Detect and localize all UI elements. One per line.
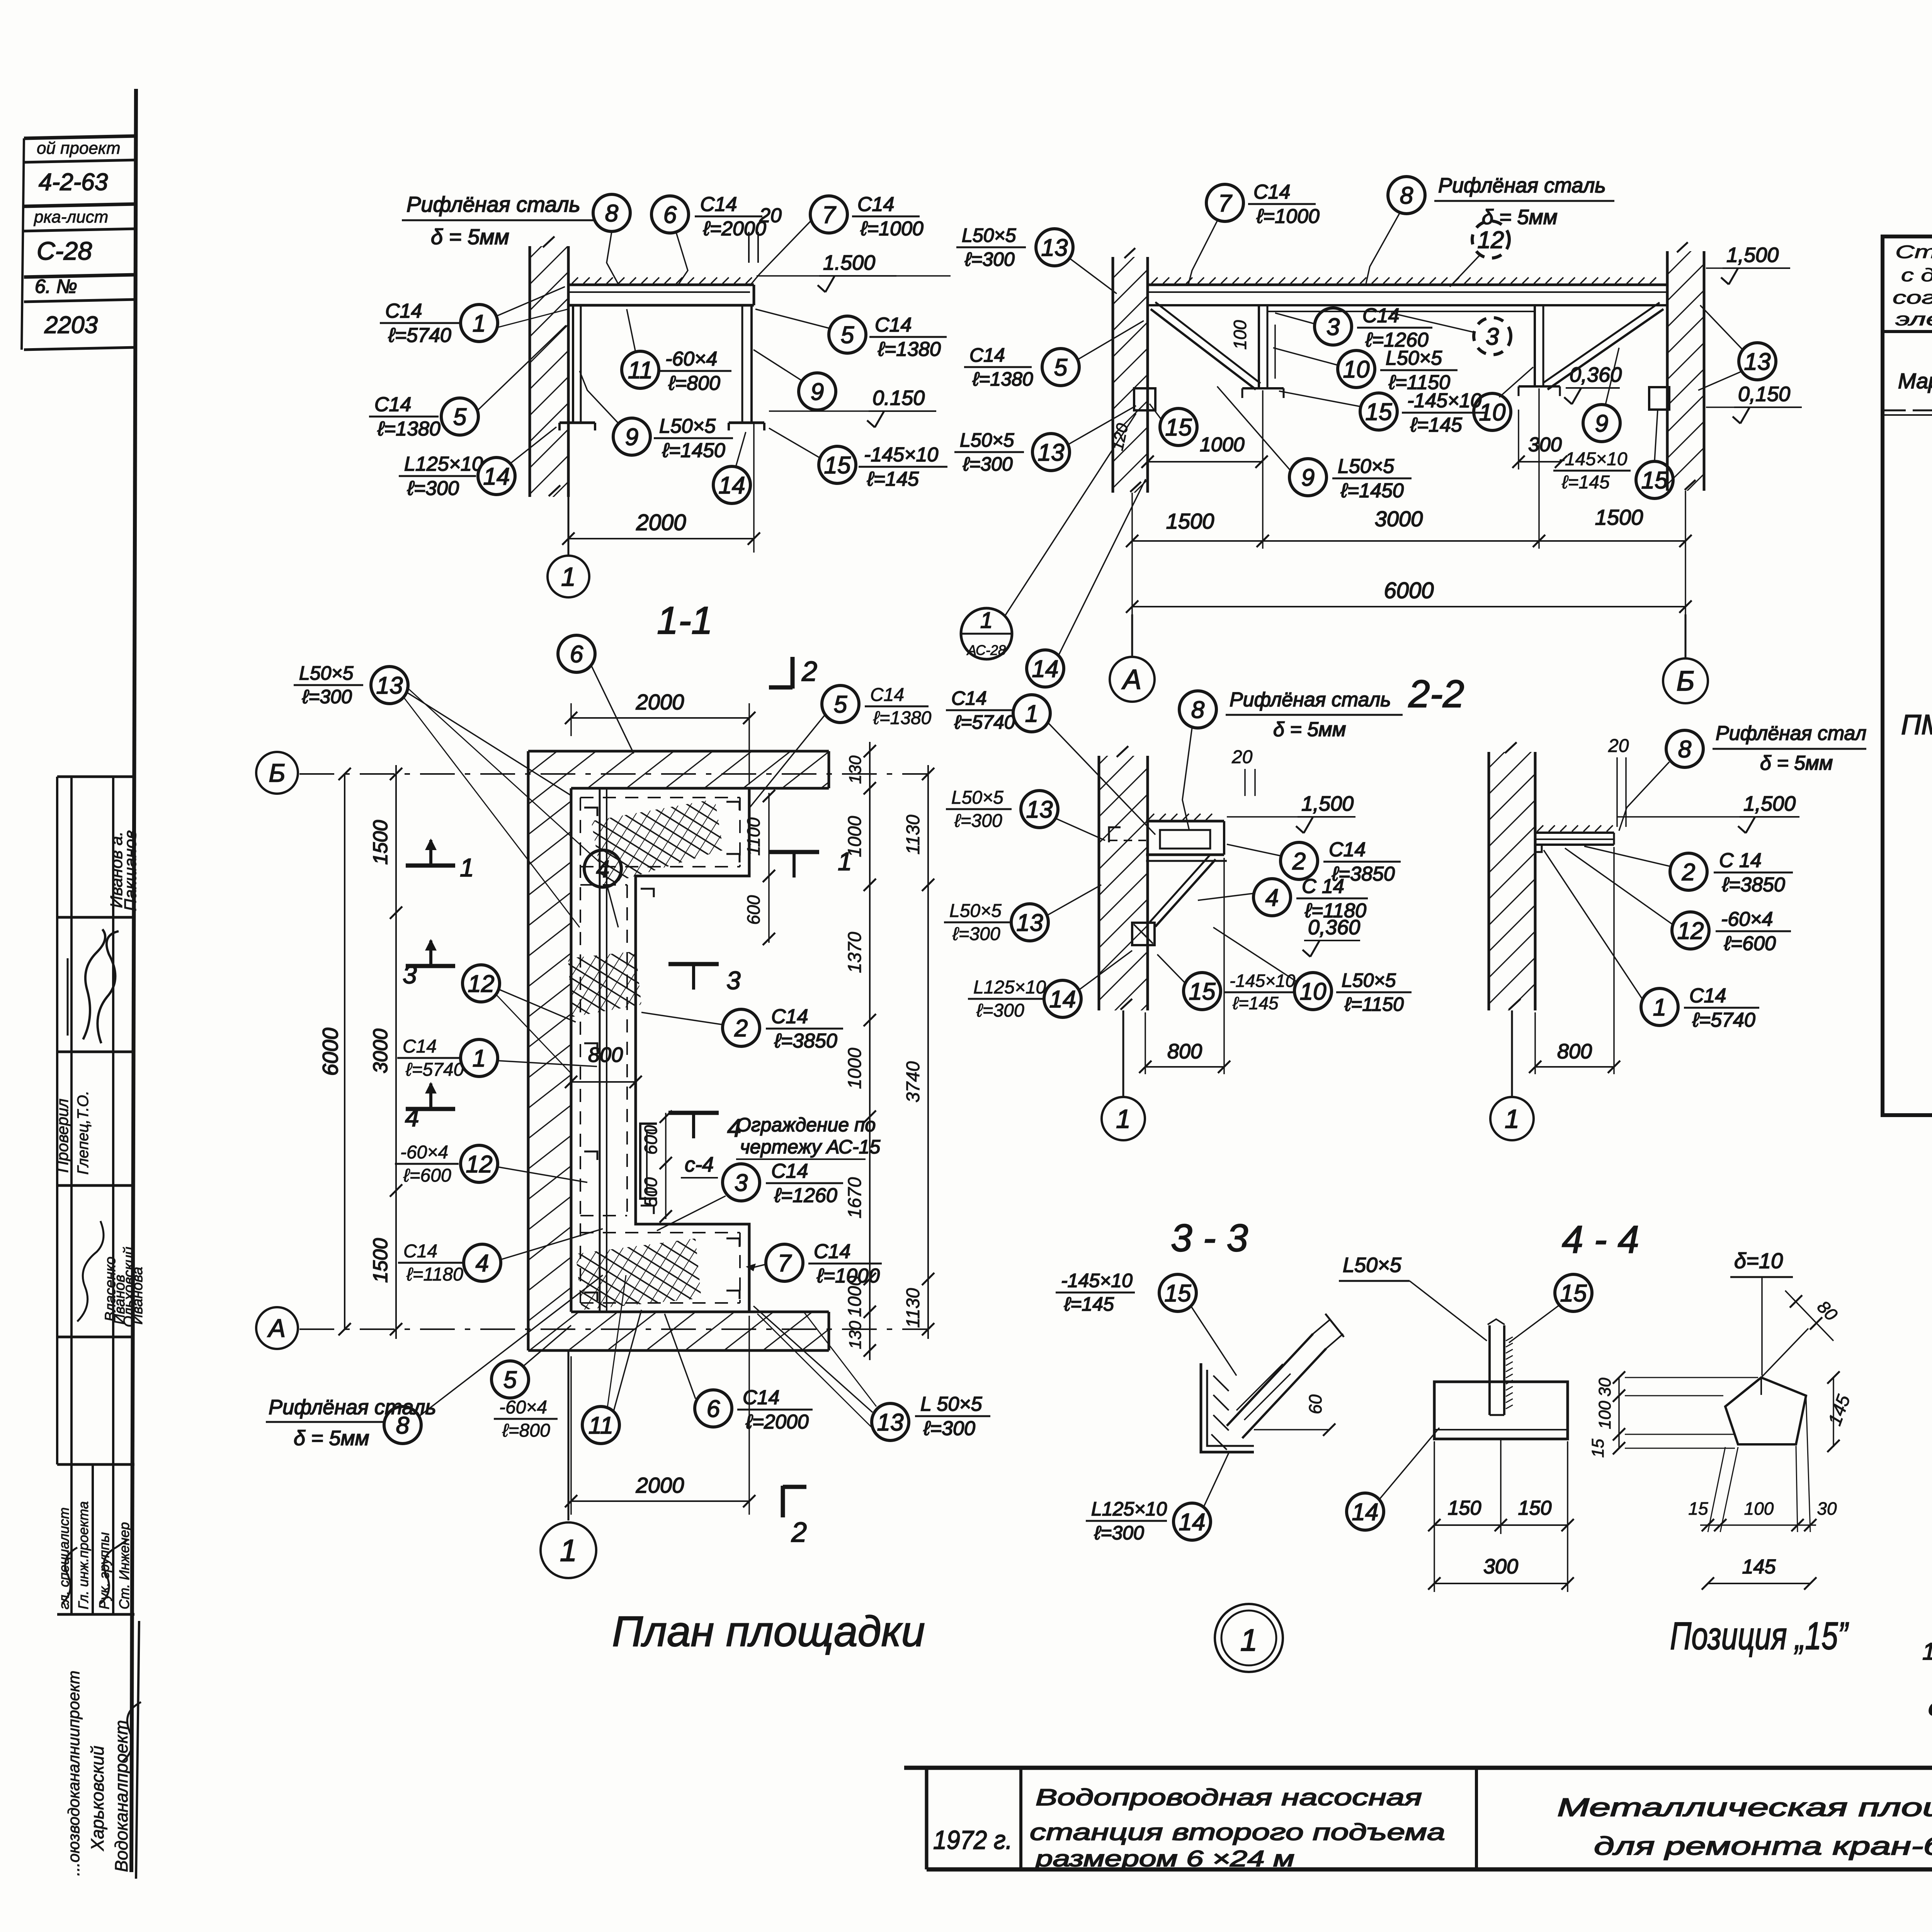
pos15 left detail angle with gusset: [1201, 1363, 1254, 1452]
svg-text:С14: С14: [385, 300, 422, 322]
svg-text:С14: С14: [374, 393, 411, 416]
svg-text:С14: С14: [403, 1241, 437, 1262]
callout 8 top of 2-2: [1388, 177, 1425, 214]
section 4-4 callout 8: [1666, 730, 1703, 767]
callout 12 dashed top of 2-2: [1472, 221, 1509, 258]
signature table grid: [56, 777, 58, 1464]
svg-text:2-2: 2-2: [1408, 672, 1464, 716]
svg-text:150: 150: [1518, 1497, 1552, 1519]
svg-text:...оюзводоканалниипроект: ...оюзводоканалниипроект: [65, 1670, 83, 1876]
svg-text:15: 15: [1165, 1280, 1191, 1307]
svg-text:4: 4: [405, 1103, 419, 1132]
svg-text:8: 8: [1400, 182, 1413, 209]
svg-text:5: 5: [834, 691, 847, 718]
section 3-3 callout 15: [1184, 973, 1221, 1010]
svg-text:2203: 2203: [44, 312, 98, 338]
svg-text:1.500: 1.500: [823, 251, 875, 274]
svg-text:L125×10: L125×10: [973, 977, 1046, 998]
callout 14 bottom: [713, 466, 750, 503]
svg-text:Рифлёная сталь: Рифлёная сталь: [1438, 174, 1606, 197]
pos15 left detail dim 60: [1254, 1429, 1329, 1430]
svg-text:13: 13: [1038, 439, 1065, 466]
svg-text:ℓ=300: ℓ=300: [923, 1417, 975, 1440]
plan bottom callout 13 with L50x5: [872, 1403, 909, 1440]
svg-text:-145×10: -145×10: [1407, 389, 1481, 412]
callout 15 far right of 2-2: [1553, 470, 1631, 472]
spec table outer border: [1883, 236, 1932, 1115]
svg-text:1670: 1670: [845, 1177, 865, 1218]
svg-text:L50×5: L50×5: [659, 415, 716, 437]
svg-text:13: 13: [376, 672, 403, 699]
svg-text:130: 130: [846, 1321, 865, 1349]
svg-text:600: 600: [641, 1125, 661, 1155]
svg-text:9: 9: [625, 424, 638, 451]
svg-text:5: 5: [453, 404, 467, 430]
svg-text:С14: С14: [1253, 181, 1290, 203]
svg-text:7: 7: [822, 202, 837, 228]
svg-text:ПМ-2: ПМ-2: [1901, 709, 1932, 740]
svg-text:20: 20: [759, 204, 782, 227]
signatures scripts: [83, 929, 105, 1039]
svg-text:с листом АС-3.: с листом АС-3.: [1928, 1694, 1932, 1721]
svg-text:ℓ=1000: ℓ=1000: [1256, 205, 1320, 228]
callout 9 left with L50x5 1450: [1289, 459, 1327, 496]
plan left dim 6000: [344, 774, 345, 1329]
svg-text:ℓ=300: ℓ=300: [976, 1000, 1024, 1021]
svg-text:ℓ=1380: ℓ=1380: [972, 368, 1033, 390]
svg-text:100: 100: [1595, 1401, 1614, 1429]
svg-text:С14: С14: [814, 1240, 850, 1263]
svg-text:4: 4: [476, 1250, 489, 1277]
plan beam along wall pos 1: [599, 788, 601, 1312]
svg-text:300: 300: [1483, 1555, 1518, 1578]
plan callout 12 upper: [463, 965, 500, 1002]
svg-text:8: 8: [1191, 697, 1205, 723]
pos15 middle detail base plate: [1434, 1382, 1568, 1439]
plan callout 2 with C14 3850: [723, 1009, 760, 1046]
svg-text:2: 2: [734, 1015, 748, 1042]
svg-text:1: 1: [460, 853, 474, 882]
plan inner dims 1100 600: [768, 793, 770, 943]
svg-text:станция второго подъема: станция второго подъема: [1030, 1819, 1445, 1845]
svg-text:Глепец,Т.О.: Глепец,Т.О.: [75, 1091, 92, 1175]
plan section flags right: [769, 850, 819, 854]
svg-text:5: 5: [1054, 354, 1068, 381]
section 3-3 deck channel: [1146, 820, 1224, 823]
svg-text:800: 800: [1557, 1040, 1592, 1063]
section 4-4 callout 1: [1641, 988, 1678, 1026]
svg-text:L50×5: L50×5: [949, 901, 1002, 921]
svg-text:145: 145: [1742, 1556, 1776, 1578]
section 4-4 deck thin: [1535, 832, 1614, 834]
svg-text:7: 7: [1218, 190, 1233, 217]
svg-text:L50×5: L50×5: [962, 224, 1016, 246]
svg-text:6000: 6000: [1384, 578, 1434, 603]
pos15 left callout 14 with L125x10: [1086, 1520, 1167, 1522]
section 3-3 diagonal brace: [1155, 859, 1216, 927]
reference circle 1 / AC-28: [961, 608, 1012, 659]
svg-text:1: 1: [561, 562, 576, 592]
svg-text:8: 8: [605, 200, 619, 227]
plan callout 3 with C14 1260: [723, 1164, 760, 1201]
svg-text:10: 10: [1479, 399, 1506, 426]
signature scripts bottom band: [62, 1548, 77, 1604]
svg-text:6: 6: [570, 641, 583, 668]
callout 1 with label C14 5740: [380, 322, 459, 324]
svg-text:3: 3: [726, 966, 741, 995]
svg-text:130: 130: [846, 755, 865, 784]
svg-text:С14: С14: [1362, 304, 1399, 327]
svg-text:6: 6: [663, 202, 677, 228]
svg-text:13: 13: [1744, 349, 1771, 375]
svg-text:3 - 3: 3 - 3: [1171, 1216, 1248, 1260]
svg-text:размером 6 ×24 м: размером 6 ×24 м: [1034, 1846, 1294, 1871]
svg-text:15: 15: [1641, 467, 1668, 494]
svg-text:С14: С14: [969, 344, 1005, 366]
svg-text:ℓ=3850: ℓ=3850: [774, 1030, 837, 1052]
svg-text:15: 15: [1688, 1498, 1708, 1519]
svg-text:1000: 1000: [845, 816, 865, 857]
svg-text:1: 1: [980, 608, 993, 633]
callout 10 with L50x5 1150: [1338, 350, 1375, 388]
section 3-3 dim 800: [1145, 1012, 1146, 1074]
plan callout 12 lower with -60x4: [395, 1163, 459, 1165]
svg-text:Гл. инж.проекта: Гл. инж.проекта: [75, 1501, 91, 1609]
section 2-2 labels left side: [956, 247, 1026, 248]
svg-text:Иванова: Иванова: [129, 1267, 146, 1325]
svg-text:0,360: 0,360: [1308, 916, 1360, 939]
section 2-2 right diagonal brace: [1548, 309, 1663, 389]
svg-text:1130: 1130: [903, 815, 923, 855]
svg-text:С14: С14: [700, 193, 737, 216]
svg-text:12: 12: [466, 1151, 493, 1178]
svg-text:12: 12: [1478, 227, 1504, 253]
svg-text:2: 2: [791, 1517, 807, 1548]
svg-text:1972 г.: 1972 г.: [933, 1825, 1012, 1855]
section 3-3 callout 10: [1294, 973, 1332, 1010]
svg-text:13: 13: [1026, 796, 1053, 823]
svg-text:13: 13: [1041, 235, 1068, 261]
section 2-2 left post: [1258, 305, 1260, 388]
svg-text:Сталь ВК Ст.3КП для сварных ко: Сталь ВК Ст.3КП для сварных конструкций …: [1895, 241, 1932, 262]
svg-text:ℓ=300: ℓ=300: [964, 248, 1015, 270]
svg-text:ℓ=1260: ℓ=1260: [774, 1184, 837, 1207]
pos15 right dim 145 vertical: [1833, 1378, 1834, 1447]
section 4-4 callout 2: [1670, 853, 1707, 890]
svg-text:Б: Б: [1677, 666, 1695, 697]
section 2-2 deck: [1148, 284, 1667, 286]
section 4-4 axis circle 1: [1511, 1010, 1513, 1097]
svg-text:ℓ=5740: ℓ=5740: [954, 711, 1015, 733]
svg-text:9: 9: [1595, 410, 1608, 437]
svg-text:ℓ=145: ℓ=145: [1064, 1293, 1114, 1315]
pos15 right dims left chain 30 100 15: [1618, 1378, 1620, 1449]
plan callout 4 on deck: [584, 850, 621, 887]
svg-text:2: 2: [1292, 848, 1306, 875]
plan callout 6 top: [558, 635, 595, 672]
svg-text:С14: С14: [743, 1386, 779, 1409]
svg-text:ℓ=1000: ℓ=1000: [816, 1265, 880, 1287]
svg-text:L50×5: L50×5: [951, 787, 1003, 808]
svg-text:3: 3: [1327, 314, 1340, 340]
svg-text:2000: 2000: [636, 510, 686, 535]
svg-text:С14: С14: [403, 1036, 437, 1057]
callout 15 left bracket: [1160, 408, 1197, 446]
svg-text:План площадки: План площадки: [612, 1608, 925, 1655]
svg-text:ℓ=1180: ℓ=1180: [406, 1264, 463, 1285]
svg-text:δ = 5мм: δ = 5мм: [1273, 718, 1346, 741]
svg-text:L50×5: L50×5: [1342, 969, 1396, 991]
svg-text:14: 14: [719, 472, 745, 499]
svg-text:L50×5: L50×5: [299, 662, 354, 684]
svg-text:1500: 1500: [1595, 505, 1643, 529]
plan left dims 1500 3000 1500: [395, 765, 397, 1339]
svg-text:согласно п.2,5,2g и предельног: согласно п.2,5,2g и предельного содержан…: [1893, 287, 1932, 308]
svg-text:14: 14: [1032, 656, 1059, 682]
plan section flags left: [406, 864, 455, 868]
svg-text:L50×5: L50×5: [1343, 1253, 1402, 1277]
svg-text:с дополнительными гарантиями: с дополнительными гарантиями загиба в хо…: [1901, 265, 1932, 285]
section 4-4 dim 800: [1534, 1012, 1536, 1074]
section 3-3 label C14 5740 callout 1: [946, 709, 1014, 711]
plan bottom callout 11 with -60x4 800: [494, 1418, 558, 1420]
svg-text:ℓ=300: ℓ=300: [1094, 1522, 1144, 1544]
title block dividers: [1019, 1768, 1022, 1869]
callout 15 with -145x10 145: [1360, 393, 1397, 430]
svg-text:100: 100: [1744, 1498, 1774, 1519]
callout 11 with label -60x4: [622, 351, 659, 388]
svg-text:Проверил: Проверил: [53, 1099, 71, 1173]
svg-text:1: 1: [473, 310, 486, 337]
svg-text:рка-лист: рка-лист: [33, 207, 108, 226]
svg-text:1-1: 1-1: [657, 599, 713, 642]
svg-text:2: 2: [1682, 859, 1695, 886]
svg-text:С14: С14: [1329, 838, 1366, 861]
svg-text:ой проект: ой проект: [37, 139, 121, 158]
svg-text:ℓ=145: ℓ=145: [1561, 472, 1610, 493]
svg-text:ℓ=1380: ℓ=1380: [873, 708, 932, 728]
svg-text:δ = 5мм: δ = 5мм: [294, 1427, 369, 1450]
section 1-1 right channel post: [742, 305, 743, 423]
svg-text:ℓ=300: ℓ=300: [954, 811, 1002, 831]
plan bottom callout 6 with C14 2000: [695, 1390, 732, 1427]
svg-text:-60×4: -60×4: [665, 348, 717, 370]
svg-text:С14: С14: [771, 1160, 808, 1182]
svg-text:3000: 3000: [369, 1029, 392, 1073]
section 2-2 under-deck flange line: [1267, 311, 1535, 312]
section 2-2 left wall: [1113, 257, 1148, 493]
svg-text:14: 14: [1179, 1509, 1206, 1536]
svg-text:С-28: С-28: [37, 236, 92, 265]
svg-text:0.150: 0.150: [872, 386, 925, 410]
svg-text:1. Настоящий чертёж рассмат: 1. Настоящий чертёж рассматривать: [1922, 1638, 1932, 1665]
pos15 right dim 80 diagonal: [1785, 1291, 1833, 1341]
plan left wall band with hatch: [528, 751, 571, 1350]
pos15 left callout 15 with -145x10: [1056, 1292, 1135, 1294]
svg-text:12: 12: [1677, 918, 1704, 944]
svg-text:4: 4: [596, 856, 609, 883]
svg-text:1: 1: [560, 1533, 577, 1568]
callout 13 right of 2-2: [1739, 343, 1776, 380]
svg-text:элементов согласно п.п. 7,: элементов согласно п.п. 7,6,3 и 2,6,4 ГО…: [1895, 309, 1932, 329]
svg-text:1: 1: [1240, 1623, 1258, 1657]
svg-text:С14: С14: [951, 687, 987, 709]
svg-text:ℓ=300: ℓ=300: [963, 453, 1013, 475]
svg-text:11: 11: [588, 1412, 613, 1439]
callout 5 left: [369, 416, 439, 418]
svg-text:Ограждение по: Ограждение по: [736, 1114, 876, 1136]
svg-text:ℓ=800: ℓ=800: [668, 372, 720, 395]
pos15 right bottom dims 15 100 30: [1708, 1447, 1725, 1532]
svg-text:1500: 1500: [1166, 509, 1214, 533]
section 3-3 callout 8 riflyonaya: [1179, 691, 1216, 728]
section 3-3 callout 2 C14 3850: [1281, 842, 1318, 879]
svg-text:ℓ=5740: ℓ=5740: [1692, 1009, 1755, 1031]
callout 14 below 2-2: [1027, 650, 1064, 687]
svg-text:с-4: с-4: [685, 1153, 714, 1176]
title block outer: [904, 1766, 1932, 1770]
svg-text:Пакшанов: Пакшанов: [121, 830, 140, 911]
plan axis A circle and axis line: [256, 1307, 298, 1349]
svg-text:Б: Б: [269, 759, 286, 787]
svg-text:С 14: С 14: [1719, 849, 1762, 872]
svg-text:С14: С14: [870, 685, 904, 705]
svg-text:9: 9: [1301, 464, 1315, 491]
svg-text:15: 15: [1165, 414, 1192, 441]
plan crosshatch patch middle: [568, 951, 641, 1017]
svg-text:А: А: [267, 1314, 286, 1342]
svg-text:4-2-63: 4-2-63: [39, 169, 108, 196]
svg-text:60: 60: [1305, 1394, 1325, 1414]
section 2-2 left diagonal brace: [1151, 309, 1256, 389]
svg-text:15: 15: [1560, 1280, 1587, 1307]
pos15 middle detail post: [1488, 1325, 1491, 1415]
plan platform inner dashed lines: [580, 797, 740, 798]
svg-text:ℓ=1150: ℓ=1150: [1344, 993, 1404, 1015]
svg-text:ℓ=300: ℓ=300: [407, 477, 459, 500]
callout 8: [593, 194, 630, 231]
svg-text:δ = 5мм: δ = 5мм: [1482, 206, 1558, 229]
plan callout 7 with C14 1000: [766, 1244, 803, 1281]
svg-text:0,150: 0,150: [1738, 383, 1790, 406]
svg-text:13: 13: [1017, 910, 1043, 936]
svg-text:ℓ=600: ℓ=600: [1724, 932, 1776, 955]
pos15 double circle 1: [1215, 1604, 1283, 1672]
axis circle 1 bottom of 1-1: [568, 497, 570, 555]
svg-text:-60×4: -60×4: [400, 1142, 448, 1163]
section 3-3 callout 14: [968, 998, 1043, 1000]
svg-text:ℓ=1000: ℓ=1000: [860, 218, 923, 240]
svg-text:1500: 1500: [369, 820, 392, 865]
svg-text:0,360: 0,360: [1570, 363, 1622, 386]
svg-text:Ст. Инженер: Ст. Инженер: [116, 1522, 132, 1609]
plan right dim chain outer: [927, 765, 929, 1339]
svg-text:ℓ=145: ℓ=145: [1410, 414, 1463, 436]
svg-text:δ = 5мм: δ = 5мм: [431, 224, 509, 249]
section 3-3 callouts 13: [946, 808, 1012, 810]
svg-text:L50×5: L50×5: [1386, 347, 1442, 369]
svg-text:для ремонта кран-балки: для ремонта кран-балки: [1594, 1832, 1932, 1860]
svg-text:15: 15: [1588, 1439, 1607, 1458]
section 1-1 wall with hatch: [530, 246, 568, 497]
top-left stamp table rows: [24, 136, 136, 138]
svg-text:800: 800: [1167, 1040, 1202, 1063]
svg-text:L50×5: L50×5: [1338, 455, 1395, 478]
plan flag 2 bottom: [781, 1486, 785, 1517]
svg-text:ℓ=145: ℓ=145: [867, 468, 919, 490]
svg-text:15: 15: [1189, 978, 1216, 1005]
callout 7 top of 2-2: [1206, 184, 1243, 221]
svg-text:ℓ=3850: ℓ=3850: [1722, 874, 1785, 896]
svg-text:ℓ=300: ℓ=300: [952, 924, 1000, 944]
svg-text:1: 1: [1653, 994, 1666, 1021]
svg-text:800: 800: [588, 1043, 623, 1066]
pos15 middle dims 150 150 300: [1434, 1441, 1435, 1592]
callout 3 dashed right: [1474, 318, 1511, 355]
svg-text:δ = 5мм: δ = 5мм: [1760, 752, 1833, 774]
sheet frame left border line: [131, 89, 136, 1872]
svg-text:4: 4: [1265, 884, 1279, 911]
plan crosshatch patch bottom: [576, 1238, 701, 1310]
svg-text:11: 11: [628, 357, 653, 384]
svg-text:ℓ=600: ℓ=600: [403, 1165, 451, 1186]
svg-text:L125×10: L125×10: [404, 453, 483, 475]
svg-text:1,500: 1,500: [1726, 243, 1779, 267]
svg-text:С 14: С 14: [1302, 875, 1344, 898]
callout 5 right: [829, 316, 866, 353]
dim 2000 section 1-1: [568, 502, 569, 553]
svg-text:2000: 2000: [636, 1473, 684, 1497]
svg-text:500: 500: [641, 1177, 661, 1207]
svg-text:1000: 1000: [845, 1048, 865, 1089]
svg-text:ℓ=1450: ℓ=1450: [1340, 480, 1404, 502]
svg-text:Марка: Марка: [1898, 369, 1932, 393]
spec table header bottom line: [1883, 410, 1932, 412]
callout 6: [651, 196, 689, 233]
plan callout 4 lower with C14 1180: [398, 1262, 464, 1264]
svg-text:С14: С14: [875, 314, 912, 336]
svg-text:3000: 3000: [1375, 507, 1423, 531]
svg-text:Рифлёная сталь: Рифлёная сталь: [1230, 689, 1391, 711]
svg-text:-145×10: -145×10: [1559, 449, 1628, 469]
plan dims 600 500 vertical: [665, 1113, 667, 1219]
plan axis B circle and axis line: [256, 752, 298, 794]
svg-text:1000: 1000: [1200, 434, 1245, 456]
svg-text:ℓ=2000: ℓ=2000: [745, 1411, 809, 1433]
svg-text:4 - 4: 4 - 4: [1562, 1218, 1639, 1261]
plan crosshatch patch top: [591, 799, 723, 886]
svg-text:С14: С14: [1689, 985, 1726, 1007]
svg-text:14: 14: [1352, 1499, 1379, 1526]
svg-text:1130: 1130: [903, 1288, 923, 1328]
svg-text:6. №: 6. №: [35, 276, 77, 297]
callout 3 with C14 1260: [1315, 308, 1352, 345]
svg-text:ℓ=145: ℓ=145: [1232, 993, 1279, 1013]
svg-text:6: 6: [707, 1396, 720, 1422]
svg-text:-145×10: -145×10: [1061, 1270, 1133, 1291]
section 4-4 callout 12: [1672, 912, 1709, 949]
svg-text:3: 3: [1486, 323, 1499, 350]
svg-text:АС-28: АС-28: [966, 642, 1006, 658]
svg-text:5: 5: [503, 1367, 517, 1393]
svg-text:14: 14: [1049, 986, 1076, 1013]
plan bottom callout 5: [492, 1361, 529, 1398]
svg-text:1: 1: [1025, 701, 1038, 727]
section 1-1 deck beam: [568, 284, 754, 286]
plan c-4 bracket: [640, 1124, 657, 1199]
section 2-2 dims 1500 3000 1500: [1131, 493, 1133, 614]
plan axis circle 1 bottom: [568, 1350, 570, 1520]
